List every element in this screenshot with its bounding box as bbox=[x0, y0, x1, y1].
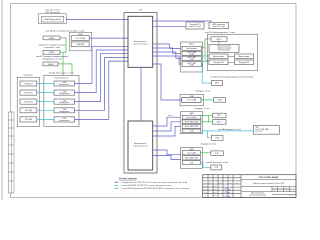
svg-text:Коммутационная: Коммутационная bbox=[54, 77, 68, 79]
svg-text:Изм: Изм bbox=[204, 182, 206, 184]
svg-text:УПР (В-3): УПР (В-3) bbox=[24, 101, 33, 103]
svg-text:(СЛ2В): (СЛ2В) bbox=[189, 54, 195, 56]
svg-text:Микроконтроллер: Микроконтроллер bbox=[217, 46, 230, 48]
svg-text:ТНВОКВК: ТНВОКВК bbox=[76, 44, 85, 46]
svg-text:пом.4В, Кроссовая, 1 этаж: пом.4В, Кроссовая, 1 этаж bbox=[48, 72, 74, 74]
svg-text:КЗАЛ: КЗАЛ bbox=[49, 51, 55, 54]
svg-text:оборудования, 1 этаж: оборудования, 1 этаж bbox=[42, 58, 62, 60]
svg-text:ГРЩ: ГРЩ bbox=[215, 138, 219, 140]
svg-text:Иванов: Иванов bbox=[212, 195, 216, 197]
svg-text:— схема ВОЛС/SM ОВ ЛВС/FTP в с: — схема ВОЛС/SM ОВ ЛВС/FTP в стояке, про… bbox=[120, 185, 171, 187]
svg-text:пом.2В (2 этаж) коммутационная: пом.2В (2 этаж) коммутационная панель ра… bbox=[210, 77, 254, 79]
svg-text:Принцип. схема «Размещ. И Текс: Принцип. схема «Размещ. И Тексте ПР» bbox=[253, 183, 285, 185]
svg-text:носителей, 1 этаж: носителей, 1 этаж bbox=[44, 46, 61, 49]
svg-text:КЗАЛ: КЗАЛ bbox=[49, 37, 55, 40]
svg-text:Иванов: Иванов bbox=[212, 185, 216, 187]
svg-text:Коммутационн: Коммутационн bbox=[59, 93, 69, 95]
svg-text:(2эт.): (2эт.) bbox=[168, 115, 172, 117]
svg-text:пом.2А Зал электронного архива: пом.2А Зал электронного архива, 1 этаж bbox=[45, 29, 85, 32]
svg-text:УАТС: УАТС bbox=[189, 42, 195, 45]
svg-text:Мультисервис: Мультисервис bbox=[238, 56, 249, 58]
svg-text:УПР (А4): УПР (А4) bbox=[25, 109, 33, 112]
svg-text:№ докум.: № докум. bbox=[218, 182, 224, 184]
svg-text:УПР (А-1): УПР (А-1) bbox=[24, 82, 33, 85]
svg-text:ПЭВМ Модем ADSL: ПЭВМ Модем ADSL bbox=[44, 18, 62, 21]
svg-text:Коридор, 3 этаж: Коридор, 3 этаж bbox=[195, 108, 211, 110]
svg-text:УФ: УФ bbox=[139, 8, 142, 11]
svg-text:УПР (В-2): УПР (В-2) bbox=[24, 92, 33, 94]
svg-text:Разраб.: Разраб. bbox=[203, 185, 208, 187]
svg-text:— схема ВОЛС/временного ВОЛС/S: — схема ВОЛС/временного ВОЛС/SM ОВ М-ОДВ… bbox=[120, 188, 190, 190]
svg-text:Иванов: Иванов bbox=[212, 189, 216, 191]
svg-text:ТкО2 СОАВ: ТкО2 СОАВ bbox=[75, 37, 86, 40]
svg-text:Коридор, 4 этаж: Коридор, 4 этаж bbox=[201, 144, 217, 146]
svg-text:пом.2Г (2 этаж): пом.2Г (2 этаж) bbox=[133, 44, 148, 46]
svg-text:КЗАЛ: КЗАЛ bbox=[48, 63, 54, 66]
svg-text:СПЗ-31-ЛВС.4(АИ)Р: СПЗ-31-ЛВС.4(АИ)Р bbox=[259, 176, 279, 179]
svg-text:пом.2Г (2 этаж): пом.2Г (2 этаж) bbox=[189, 26, 201, 28]
svg-text:Меридий СМ: Меридий СМ bbox=[239, 61, 250, 64]
svg-text:КЗУ 1: КЗУ 1 bbox=[217, 115, 222, 117]
svg-text:Иванов: Иванов bbox=[212, 192, 216, 194]
svg-text:пом.2Г (2 этаж): пом.2Г (2 этаж) bbox=[133, 146, 148, 148]
svg-text:УПР (А6): УПР (А6) bbox=[25, 118, 33, 121]
svg-text:Н.контр.: Н.контр. bbox=[203, 192, 208, 194]
svg-text:КЗУ 1: КЗУ 1 bbox=[217, 122, 222, 124]
svg-text:Коммутационн: Коммутационн bbox=[59, 84, 69, 86]
svg-text:КЗМ: КЗМ bbox=[218, 100, 222, 102]
svg-text:жимков включения: жимков включения bbox=[217, 48, 231, 50]
svg-text:Коридор, 2 этаж: Коридор, 2 этаж bbox=[196, 91, 212, 93]
svg-text:Коммутационн: Коммутационн bbox=[59, 102, 69, 104]
svg-text:— коммутация узла, ЛВС-UTP cat: — коммутация узла, ЛВС-UTP cat 5e с крос… bbox=[120, 181, 187, 184]
svg-text:Мультисервис: Мультисервис bbox=[213, 56, 224, 58]
svg-text:УДН 1: УДН 1 bbox=[216, 39, 221, 41]
svg-text:Листов: Листов bbox=[285, 188, 289, 190]
svg-text:Факс/телефон: Факс/телефон bbox=[186, 47, 197, 50]
svg-text:Меридий СМ: Меридий СМ bbox=[213, 61, 224, 64]
svg-text:КЗФ: КЗФ bbox=[215, 152, 219, 155]
svg-text:Коммутационн: Коммутационн bbox=[59, 111, 69, 113]
svg-text:Дата: Дата bbox=[236, 182, 239, 184]
svg-text:Коммутационн: Коммутационн bbox=[59, 120, 69, 122]
svg-text:(СЛВ): (СЛВ) bbox=[189, 65, 194, 67]
svg-text:Серверная: Серверная bbox=[23, 74, 33, 76]
svg-text:(СЛВ): (СЛВ) bbox=[189, 59, 194, 61]
svg-text:пом.2Б Электрощитовая, 1 этаж: пом.2Б Электрощитовая, 1 этаж bbox=[205, 32, 236, 34]
svg-text:Условн. обознач.: Условн. обознач. bbox=[119, 177, 138, 180]
svg-text:ПС 1-27 и: ПС 1-27 и bbox=[255, 131, 262, 133]
svg-text:Лист: Лист bbox=[279, 188, 282, 190]
svg-text:пом.2Г (2 этаж): пом.2Г (2 этаж) bbox=[213, 26, 225, 28]
svg-text:пом.4В, Кроссовая, 1 этаж: пом.4В, Кроссовая, 1 этаж bbox=[206, 162, 229, 164]
svg-text:ТкО2 СОАВ: ТкО2 СОАВ bbox=[187, 99, 198, 102]
